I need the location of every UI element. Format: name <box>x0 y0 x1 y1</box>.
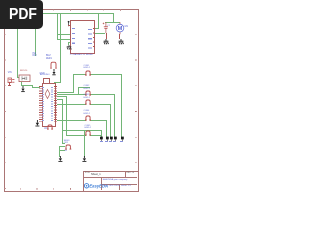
wire: header J1 left lead <box>73 73 86 76</box>
wire: header J1 right lead <box>90 73 122 76</box>
sensor S1 labels <box>64 140 70 145</box>
Arduino Nano U2 USB connector <box>43 78 50 84</box>
header J3 <box>84 99 92 105</box>
ICSP header below nano <box>46 124 54 130</box>
header J3 label <box>84 94 90 99</box>
title block date row <box>103 185 120 188</box>
wire: relay right pin 1 stub <box>95 27 98 30</box>
wire: vertical drop x=35 to net label <box>34 13 37 56</box>
wire: nano bus row 4 y=99.1 <box>57 98 63 101</box>
wire: sensor left stair row 2 <box>59 145 65 148</box>
header J5 label <box>85 125 91 130</box>
pad TP2 <box>105 136 110 142</box>
sensor S1 <box>64 144 73 150</box>
connector J6 lower stub <box>8 83 11 86</box>
Arduino Nano U2 right pins <box>54 86 57 122</box>
relay module U1 <box>70 20 95 54</box>
Arduino Nano U2 left pins <box>39 86 42 122</box>
relay U1 right pin labels <box>88 29 92 51</box>
wire: relay pin stub y=34.5 <box>57 33 70 36</box>
wire: sensor right riser to net y=130.5 <box>83 130 86 157</box>
Arduino Nano U2 label <box>40 74 50 77</box>
buzzer LS1 label <box>46 55 52 60</box>
MOSFET module Q1 label (red) <box>20 70 27 72</box>
wire: into MOSFET module left <box>17 76 20 79</box>
wire: vertical drop x=57 into relay left pins <box>56 13 59 40</box>
wire: motor to ground <box>118 34 121 39</box>
svg-text:M1: M1 <box>124 25 128 28</box>
wire: MOSFET module out horizontal <box>21 84 33 87</box>
wire: dropper x=62 to bottom sensor <box>61 99 64 144</box>
header J1 label <box>84 65 90 70</box>
wire: header J2 left lead from nano <box>57 93 87 96</box>
ground below sensor right <box>81 156 88 164</box>
ground below motor M1 <box>118 39 124 46</box>
wire: top horizontal net from relay area across sheet <box>17 12 114 15</box>
Arduino Nano U2 right pin labels <box>51 87 53 123</box>
wire: drop to ground left of sensor <box>58 146 61 157</box>
relay U1 right pin stubs <box>93 28 95 51</box>
ground below capacitor C1 <box>103 39 109 46</box>
title block sheet name <box>91 173 101 176</box>
Arduino Nano U2 reset diamond <box>44 89 51 99</box>
wire: sensor left stair row 3 <box>59 149 65 152</box>
wire: drop x=121.5 to pad row <box>120 74 123 136</box>
wire: header J3 right lead <box>90 103 111 106</box>
wire: header J5 right lead <box>90 134 102 137</box>
wire: vertical drop x=60.5 to nano top <box>59 13 62 83</box>
MOSFET module Q1 body <box>18 74 31 83</box>
net label near x=35 <box>33 53 37 58</box>
title block REV <box>127 172 135 174</box>
Arduino Nano U2 ref label <box>44 128 47 131</box>
title block TITLE text <box>85 172 91 174</box>
MOSFET module Q1 net label (blue) <box>8 72 12 75</box>
header J1 <box>84 70 92 76</box>
net label left of buzzer <box>40 73 45 76</box>
wire: vertical drop x=17 to MOSFET module <box>16 13 19 78</box>
wire: corner jog horizontal y=86.9 <box>78 86 90 89</box>
svg-text:M: M <box>117 26 122 32</box>
wire: into nano left pin <box>32 86 40 89</box>
wire: capacitor to ground <box>105 33 108 39</box>
wire: header J4 lead straight from nano <box>57 119 87 122</box>
wire: drop x=113.5 to motor net <box>112 13 115 23</box>
sensor S1 ref label <box>65 150 68 153</box>
ground below sensor left <box>57 156 64 164</box>
relay U1 top-left port marker <box>66 20 72 28</box>
Arduino Nano U2 body <box>42 83 56 128</box>
wire: header J4 right lead <box>90 119 107 122</box>
wire: relay COM to capacitor <box>95 32 105 35</box>
Arduino Nano U2 left pin labels <box>42 87 44 123</box>
wire: nano bus row 3 y=96.7 <box>57 95 67 98</box>
wire: header J5 left lead <box>66 134 86 137</box>
header J2 <box>84 90 92 96</box>
wire: step down to nano row <box>31 85 34 88</box>
title block <box>83 171 139 192</box>
PDF badge text <box>3 6 43 24</box>
wire: nano bus row 1 y=92 <box>57 91 75 94</box>
capacitor C1 ref label <box>107 25 110 28</box>
ground at relay pin 4 <box>66 45 72 51</box>
wire: relay gnd stub <box>68 41 70 44</box>
wire: drop x=114.5 to pad row <box>113 94 116 136</box>
wire: drop x=106.5 to pad row <box>105 120 108 137</box>
sheet border frame (decorative) <box>4 9 140 193</box>
header J4 label <box>84 110 90 115</box>
pad TP4 <box>113 136 118 142</box>
wire: jog onto nano top pin <box>54 81 61 84</box>
wire: motor/cap top net horizontal <box>105 21 120 24</box>
buzzer LS1 <box>49 61 58 69</box>
wire: relay gnd drop <box>67 42 70 46</box>
connector J6 pin mark <box>8 85 11 86</box>
header J4 <box>84 115 92 121</box>
ground below buzzer <box>51 69 57 77</box>
pad TP3 <box>109 136 114 142</box>
header J5 <box>84 130 92 136</box>
relay U1 left pin labels <box>72 28 75 46</box>
connector J6 (2-pin input) <box>7 77 15 85</box>
wire: drop x=110.5 to pad row <box>109 104 112 137</box>
wire: drop x=101 to pad row <box>100 130 103 137</box>
wire: relay pin stub y=38.8 <box>57 38 70 41</box>
motor M1 <box>115 22 131 35</box>
wire: drop x=98 into relay right pin 1 <box>97 13 100 30</box>
wire: header J2 right lead <box>90 93 115 96</box>
pad row labels <box>100 141 103 142</box>
ground below MOSFET module <box>20 86 26 94</box>
pad TP1 <box>99 136 104 142</box>
pad TP5 <box>120 136 125 142</box>
wire: long horizontal y=130.5 above pad row <box>62 129 102 132</box>
relay module label: 2 CHANNEL 5V RELAY <box>70 54 93 57</box>
wire: header J3 lead straight from nano <box>57 103 87 106</box>
title block sheet row <box>121 185 131 188</box>
wire: riser x=74 to header J1 <box>72 74 75 92</box>
wire: corner jog x=78.5 <box>77 87 80 95</box>
EasyEDA logo <box>84 182 102 190</box>
wire: MOSFET module out down <box>20 81 23 86</box>
relay U1 top-left pin stub <box>68 24 70 27</box>
wire: dropper x=66 to header J5 row <box>65 96 68 136</box>
wire: sensor left stair row 1 <box>62 142 65 145</box>
svg-text:EasyEDA: EasyEDA <box>89 183 108 188</box>
title block company row <box>103 179 128 182</box>
header J2 label <box>84 85 90 90</box>
PDF badge <box>0 0 43 29</box>
ground at nano bottom-left <box>34 120 41 129</box>
capacitor C1 (polarized, red) <box>102 22 110 34</box>
